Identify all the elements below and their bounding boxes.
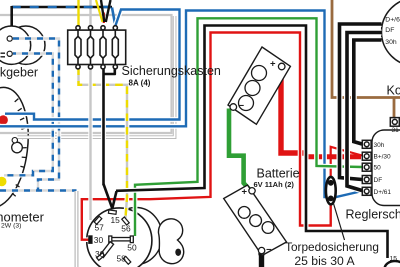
generator circle (Ko...)	[382, 0, 400, 66]
wire yellow/white dashed fuse1 to switch 56	[79, 68, 128, 219]
fuse box Sicherungskasten	[68, 30, 126, 64]
wire green circuit 50	[135, 18, 362, 236]
bottom-right component stub	[385, 261, 400, 267]
wire thick green battery link	[229, 109, 249, 190]
regler terminal DF	[362, 176, 371, 184]
regler terminal 30h	[362, 140, 371, 148]
svg-text:56: 56	[121, 224, 131, 234]
wire thick red to regler B+/30	[308, 154, 362, 159]
wire blue/white dashed blinkgeber upper to indicator	[0, 39, 77, 191]
svg-text:30h: 30h	[374, 142, 385, 149]
svg-text:−: −	[266, 245, 272, 256]
wire black generator 30h to regler 30h	[354, 40, 382, 144]
ignition switch main circle	[87, 208, 152, 267]
svg-text:D+/61: D+/61	[374, 189, 392, 196]
regler terminal 50	[362, 163, 371, 171]
Reglerschalter outline	[372, 130, 400, 206]
svg-text:50: 50	[374, 165, 382, 172]
svg-text:15: 15	[390, 256, 398, 263]
wire black generator D+ to regler DF	[340, 24, 382, 180]
svg-text:6V 11Ah (2): 6V 11Ah (2)	[254, 180, 295, 189]
yellow indicator lamp	[0, 177, 6, 186]
svg-text:D+/61: D+/61	[385, 17, 400, 24]
battery 1	[228, 47, 290, 124]
svg-text:Torpedosicherung: Torpedosicherung	[285, 240, 379, 254]
wire red torpedo fuse to B+/30	[331, 147, 362, 178]
wire blue/white dashed blinkgeber lower to indicator	[4, 54, 53, 176]
svg-text:30: 30	[95, 249, 105, 259]
ignition switch body ellipse	[110, 208, 162, 265]
svg-text:Sicherungskasten: Sicherungskasten	[122, 64, 221, 78]
switch contact arm to 30 bottom	[97, 242, 114, 261]
fuse F2	[88, 26, 94, 69]
svg-text:+: +	[242, 187, 248, 198]
speedometer lamp 12V 2W (3)	[12, 138, 23, 153]
wire yellow fuse1 top	[77, 0, 79, 27]
wire white (double grey) speedo lamp	[18, 16, 175, 137]
wire thick black battery2 minus	[259, 253, 264, 267]
wire grey top headlight loop	[0, 15, 172, 133]
wire red circuit 30	[82, 33, 331, 240]
torpedo fuse 25-30A	[326, 177, 336, 204]
wire thick red battery1 plus	[281, 69, 304, 154]
svg-text:DF: DF	[374, 177, 383, 184]
red indicator lamp	[0, 115, 8, 124]
svg-text:Reglerschalter: Reglerschalter	[346, 208, 400, 222]
wire grey fuse2 top	[89, 0, 91, 27]
svg-text:25 bis 30 A: 25 bis 30 A	[294, 254, 355, 267]
svg-text:50: 50	[127, 242, 137, 252]
fuse F3	[100, 26, 106, 69]
svg-text:30h: 30h	[385, 39, 397, 46]
blinkgeber terminals	[7, 36, 12, 56]
svg-text:30: 30	[94, 235, 104, 245]
wire red fuse3 stub	[103, 13, 105, 24]
flasher relay Blinkgeber	[0, 26, 45, 64]
switch terminal 58	[123, 256, 131, 264]
svg-text:12V 2W (3): 12V 2W (3)	[0, 223, 21, 230]
fuse F1	[75, 26, 81, 69]
terminal 31	[390, 118, 399, 127]
wire black circuit 15 ignition	[112, 26, 387, 259]
svg-text:−: −	[239, 101, 245, 112]
regler terminal D+/61	[362, 187, 371, 195]
wire black blinkgeber top stub	[10, 6, 13, 27]
svg-text:DF: DF	[385, 27, 394, 34]
svg-text:Blinkgeber: Blinkgeber	[0, 66, 38, 80]
switch terminal 15	[108, 210, 116, 214]
pointer torpedo fuse label	[334, 204, 345, 241]
wire black diagonals fuse3 top	[101, 0, 111, 22]
node battery minus junction	[258, 251, 264, 257]
svg-text:Kombischalter: Kombischalter	[387, 84, 400, 98]
svg-text:58: 58	[117, 253, 127, 263]
wire white to bottom edge	[75, 191, 78, 267]
svg-text:B+/30: B+/30	[374, 154, 392, 161]
wire yellow diag fuse3	[96, 0, 103, 22]
svg-text:31: 31	[392, 127, 400, 134]
switch terminal 56	[122, 217, 129, 225]
switch terminal 57	[94, 216, 102, 224]
wire blue B left edge to regler D+/61	[0, 11, 360, 198]
wire black fuse3+4 to switch 15	[104, 67, 115, 209]
wire black generator DF to regler D+/61	[347, 33, 382, 191]
switch terminal 30 left	[89, 236, 92, 244]
regler terminal B+/30	[362, 152, 371, 160]
svg-text:Batterie: Batterie	[257, 167, 300, 181]
speedometer (Tachometer)	[0, 84, 35, 211]
key	[158, 219, 183, 264]
svg-text:15: 15	[111, 215, 121, 225]
svg-text:8A (4): 8A (4)	[129, 79, 151, 88]
fuse F4	[112, 26, 118, 69]
wire grey fuse2 to switch 57	[88, 68, 92, 221]
svg-text:57: 57	[95, 223, 105, 233]
wire blue/black dashed top to fuse 4	[12, 7, 116, 26]
wire blue A fuse4 to speedo red lamp	[5, 10, 180, 120]
battery 2 Batterie 6V 11Ah	[224, 185, 287, 256]
svg-text:+: +	[270, 59, 276, 70]
wire brown to terminal 31	[332, 0, 400, 118]
switch contact bar 50	[109, 236, 134, 243]
